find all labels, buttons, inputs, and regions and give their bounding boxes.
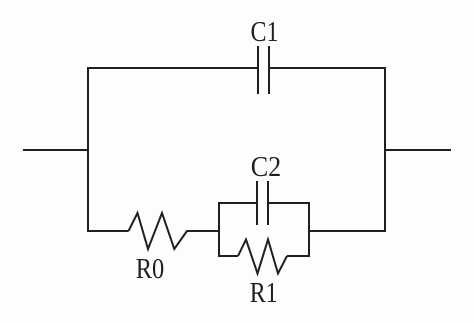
wire: box to right vertical branch [309,230,386,232]
svg-text:C1: C1 [251,17,279,48]
right terminal wire [384,149,451,151]
wire: R1 branch left segment [218,255,238,257]
wire: left vertical branch [87,67,89,232]
wire: C2 branch right segment [268,202,310,204]
wire: top branch right of C1 [269,67,386,69]
svg-text:C2: C2 [251,152,282,183]
wire: box right edge [308,202,310,257]
svg-text:R0: R0 [136,254,165,285]
wire: R1 branch right segment [287,255,310,257]
wire: top branch left of C1 [87,67,258,69]
capacitor C1 [258,46,269,94]
wire: R0 to parallel box [187,230,221,232]
wire: box left edge [218,202,220,257]
resistor R0 [129,213,188,249]
resistor R1 [238,240,287,274]
wire: bottom branch left [87,230,129,232]
wire: right vertical branch [384,67,386,232]
capacitor C2 [257,181,268,225]
left terminal wire [23,149,88,151]
wire: C2 branch left segment [218,202,258,204]
svg-text:R1: R1 [250,278,278,309]
